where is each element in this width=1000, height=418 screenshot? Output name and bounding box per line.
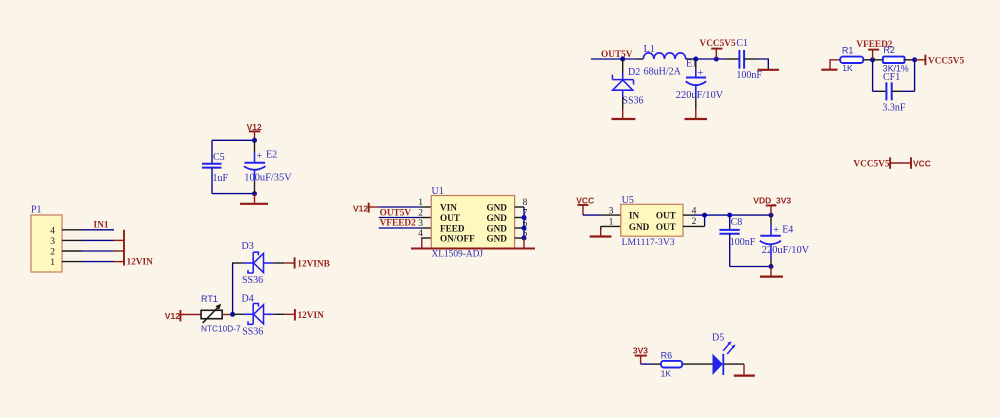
U1 pin 2 stub <box>421 217 431 219</box>
svg-text:IN1: IN1 <box>94 221 109 231</box>
ground stub <box>254 194 256 204</box>
power port V12 stub <box>254 131 256 140</box>
junction E4/VDD tap <box>769 213 774 218</box>
wire to pin1 <box>379 206 421 208</box>
wire bottom <box>212 193 255 195</box>
U5 pin 2 stub <box>683 225 705 227</box>
svg-text:1K: 1K <box>842 63 853 73</box>
wire R6 to D5 <box>682 363 713 365</box>
svg-text:XL1509-ADJ: XL1509-ADJ <box>432 249 484 259</box>
power port VCC bar <box>578 204 589 206</box>
U5 pin 3 stub <box>601 214 621 216</box>
junction R1/R2/VFEED2 <box>870 57 875 62</box>
ground bar left <box>821 69 837 71</box>
wire pin4 IN1 <box>82 229 114 231</box>
thermistor RT1 body <box>201 310 222 318</box>
svg-text:3: 3 <box>418 219 423 229</box>
svg-text:3: 3 <box>609 206 614 216</box>
diode D4 right pin <box>273 313 284 315</box>
pin 3 stub <box>62 239 82 241</box>
svg-text:VCC5V5: VCC5V5 <box>853 159 890 169</box>
capacitor E1 bottom pin <box>695 85 697 96</box>
svg-text:VCC5V5: VCC5V5 <box>700 39 737 49</box>
U1 pin 1 stub <box>421 206 431 208</box>
svg-text:220uF/10V: 220uF/10V <box>676 90 724 101</box>
U1 pin 3 stub <box>421 227 431 229</box>
red stub to gnd <box>770 267 772 277</box>
svg-text:2: 2 <box>50 248 55 258</box>
capacitor E2 arc <box>244 166 266 170</box>
pin 4 stub <box>62 229 82 231</box>
power port VDD_3V3 stub <box>770 206 772 216</box>
ground bar C1 <box>758 69 780 71</box>
capacitor E2 top pin <box>254 140 256 152</box>
svg-text:1: 1 <box>50 258 55 268</box>
svg-text:SS36: SS36 <box>242 327 263 338</box>
pin1 corner <box>600 226 602 230</box>
junction RT1/D4 <box>230 312 235 317</box>
svg-text:V12: V12 <box>353 204 368 214</box>
capacitor E2 bottom pin <box>254 170 256 181</box>
junction bottom <box>769 264 774 269</box>
svg-text:12VIN: 12VIN <box>127 258 154 268</box>
svg-text:NTC10D-7: NTC10D-7 <box>201 324 241 334</box>
ground rail under U1 <box>411 248 535 250</box>
junction C8 tap <box>727 213 732 218</box>
svg-text:1K: 1K <box>661 369 672 379</box>
U1 pin 5 stub <box>515 237 524 239</box>
ground bar D2 <box>612 118 636 120</box>
junction pin4/pin2 <box>702 213 707 218</box>
wire 3V3 to R6 <box>641 363 653 365</box>
svg-text:VCC5V5: VCC5V5 <box>928 57 965 67</box>
diode D2 <box>612 73 633 98</box>
svg-text:P1: P1 <box>31 205 42 216</box>
U5 pin 1 stub <box>601 225 621 227</box>
wire C8 upper <box>729 215 731 230</box>
red wire V12 <box>369 206 379 208</box>
svg-text:OUT: OUT <box>656 211 676 221</box>
wire CF1 bottom left <box>873 90 878 92</box>
svg-text:IN: IN <box>629 211 640 221</box>
svg-text:V12: V12 <box>247 122 262 132</box>
thermistor RT1 arrow <box>203 307 219 323</box>
svg-text:2: 2 <box>692 217 697 227</box>
svg-text:12VINB: 12VINB <box>297 259 330 269</box>
svg-text:L1: L1 <box>644 44 655 55</box>
diode D3 right pin <box>273 262 284 264</box>
capacitor E2 top plate <box>245 162 266 164</box>
svg-text:VIN: VIN <box>440 202 457 212</box>
resistor R6 body <box>661 361 682 368</box>
connector P1 body <box>31 215 62 272</box>
svg-text:D5: D5 <box>712 333 724 344</box>
R6 left pin <box>653 363 661 365</box>
wire to pin3 <box>379 227 421 229</box>
power port VFEED2 stub <box>872 50 874 60</box>
RT1 right wire <box>222 314 232 316</box>
svg-text:4: 4 <box>50 226 55 236</box>
svg-text:4: 4 <box>418 229 423 239</box>
capacitor C1 plates <box>738 50 740 69</box>
svg-text:LM1117-3V3: LM1117-3V3 <box>622 237 675 248</box>
svg-text:1uF: 1uF <box>213 173 229 184</box>
capacitor E4 top pin <box>770 215 772 225</box>
diode D2 bottom pin <box>622 97 624 109</box>
svg-text:GND: GND <box>629 222 650 232</box>
U5 pin 4 stub <box>683 214 692 216</box>
capacitor E4 bottom pin <box>770 244 772 259</box>
svg-text:C8: C8 <box>731 217 743 228</box>
capacitor C1 right pin <box>744 58 757 60</box>
ground bar <box>240 203 268 205</box>
svg-text:R2: R2 <box>883 45 895 55</box>
svg-text:E2: E2 <box>266 150 277 161</box>
IC U5 body <box>621 204 683 236</box>
svg-text:+: + <box>257 151 263 162</box>
inductor L1 <box>643 53 685 59</box>
svg-text:100nF: 100nF <box>736 70 762 81</box>
svg-text:1: 1 <box>609 218 614 228</box>
svg-text:E4: E4 <box>782 225 793 236</box>
pin 2 stub <box>62 250 82 252</box>
tie wire <box>890 162 911 164</box>
svg-text:8: 8 <box>523 198 528 208</box>
svg-text:12VIN: 12VIN <box>298 311 325 321</box>
wire CF1 left vertical <box>872 60 874 92</box>
R2 right pin <box>904 59 915 61</box>
red wire pin1 to gnd <box>600 230 602 237</box>
red wire to 12VINB port <box>284 262 294 264</box>
wire to pin2 <box>379 217 421 219</box>
power port VCC5V5 bar <box>711 48 722 50</box>
wire D5 to gnd <box>723 363 744 365</box>
diode D4 left pin <box>233 313 244 315</box>
power port VCC5V5 stub <box>715 49 717 59</box>
junction R2/CF1 <box>912 57 917 62</box>
junction pin6 <box>522 226 527 231</box>
svg-text:RT1: RT1 <box>201 294 218 304</box>
port bar 12VIN <box>294 309 296 321</box>
svg-text:FEED: FEED <box>440 223 465 233</box>
svg-text:SS36: SS36 <box>622 96 643 107</box>
wire pin2 <box>82 250 114 252</box>
capacitor E1 top pin <box>695 59 697 70</box>
red wire to 12VIN port <box>284 313 295 315</box>
wire C5 lower <box>211 168 213 194</box>
wire C5 upper <box>211 140 213 163</box>
svg-text:2: 2 <box>418 209 423 219</box>
junction top <box>252 138 257 143</box>
svg-text:VCC: VCC <box>913 158 931 168</box>
power port V12 bar <box>368 203 370 213</box>
LED D5 arrow 2 <box>727 347 733 354</box>
wire OUT5V start <box>591 58 637 60</box>
svg-text:U5: U5 <box>622 195 634 206</box>
LED D5 triangle <box>713 354 723 375</box>
U1 pin 4 stub <box>421 237 431 239</box>
wire VCC to U5 <box>583 214 601 216</box>
wire C8 lower <box>729 234 731 267</box>
diode D4 <box>243 304 273 325</box>
IC U1 body <box>431 196 514 249</box>
svg-text:R1: R1 <box>842 45 854 55</box>
svg-text:D3: D3 <box>242 241 254 252</box>
resistor R1 body <box>840 57 863 63</box>
svg-text:GND: GND <box>487 202 508 212</box>
capacitor E1 top plate <box>686 77 706 79</box>
12VIN bus bar <box>123 230 125 266</box>
capacitor C5 plates <box>202 163 222 165</box>
wire gnd pins vertical <box>523 207 525 238</box>
inductor L1 left pin <box>637 58 643 60</box>
power port VDD_3V3 bar <box>766 205 777 207</box>
capacitor C8 plates <box>719 229 739 231</box>
capacitor E4 arc <box>760 241 781 245</box>
port bar right <box>910 157 912 169</box>
port bar left <box>889 157 891 169</box>
wire bottom across <box>730 266 771 268</box>
svg-text:GND: GND <box>487 233 508 243</box>
svg-text:1: 1 <box>418 198 423 208</box>
junction pin7 <box>522 215 527 220</box>
red wire pin1 to bus <box>114 261 125 263</box>
svg-text:C5: C5 <box>213 152 225 163</box>
ground bar U5 <box>590 235 612 237</box>
power port V12 bar <box>179 310 181 322</box>
wire CF1 bottom right <box>901 90 915 92</box>
U1 pin 7 stub <box>515 217 524 219</box>
power port 3V3 bar <box>635 355 647 357</box>
wire L1 to C1 <box>692 58 726 60</box>
R2 left pin <box>873 59 883 61</box>
svg-text:3V3: 3V3 <box>633 346 648 356</box>
diode D2 top pin <box>622 59 624 73</box>
svg-text:V12: V12 <box>165 311 180 321</box>
svg-text:+: + <box>773 225 779 236</box>
power port VCC stub <box>582 205 584 215</box>
power port 3V3 stub <box>640 356 642 365</box>
svg-text:D2: D2 <box>628 67 640 78</box>
CF1 left pin <box>878 90 887 92</box>
ground stub <box>830 60 840 70</box>
svg-text:U1: U1 <box>432 186 444 197</box>
junction bottom <box>252 191 257 196</box>
wire top <box>212 139 255 141</box>
svg-text:SS36: SS36 <box>242 275 263 286</box>
svg-text:OUT: OUT <box>440 213 460 223</box>
red stub to gnd <box>622 109 624 119</box>
junction D2 tap <box>620 57 625 62</box>
junction VCC5V5 tap <box>714 57 719 62</box>
svg-text:OUT: OUT <box>656 222 676 232</box>
U1 pin 6 stub <box>515 227 524 229</box>
pin 1 stub <box>62 261 82 263</box>
svg-text:GND: GND <box>487 223 508 233</box>
wire CF1 right vertical <box>914 60 916 92</box>
R1 right pin <box>863 59 872 61</box>
svg-text:OUT5V: OUT5V <box>601 50 633 60</box>
port bar 12VINB <box>294 257 296 268</box>
LED D5 arrow 1 <box>723 343 729 350</box>
port bar VCC5V5 <box>924 55 926 65</box>
power port VFEED2 bar <box>868 49 879 51</box>
LED D5 cathode bar <box>722 354 724 375</box>
svg-text:220uF/10V: 220uF/10V <box>762 245 810 256</box>
red wire pin3 to bus <box>114 239 125 241</box>
svg-text:68uH/2A: 68uH/2A <box>644 66 682 77</box>
svg-text:C1: C1 <box>736 38 748 49</box>
wire to gnd <box>758 59 769 69</box>
wire V12 to RT1 <box>180 314 201 316</box>
wire U5 out <box>692 214 771 216</box>
capacitor CF1 plates <box>885 82 887 100</box>
svg-text:ON/OFF: ON/OFF <box>440 233 475 243</box>
junction pin5 <box>522 236 527 241</box>
red wire pin5 to rail <box>523 238 525 249</box>
svg-text:VDD_3V3: VDD_3V3 <box>753 195 791 205</box>
inductor L1 right pin <box>686 58 692 60</box>
capacitor E4 top plate <box>760 235 781 237</box>
svg-text:GND: GND <box>487 213 508 223</box>
resistor R2 body <box>883 57 905 63</box>
svg-text:100nF: 100nF <box>730 237 756 248</box>
wire pin1 <box>82 261 114 263</box>
svg-text:3.3nF: 3.3nF <box>882 102 906 113</box>
junction E1 tap <box>693 57 698 62</box>
power port V12 bar <box>249 130 260 132</box>
CF1 right pin <box>892 90 901 92</box>
svg-text:D4: D4 <box>242 294 254 305</box>
svg-text:100uF/35V: 100uF/35V <box>244 173 292 184</box>
red wire to VCC5V5 <box>915 59 926 61</box>
diode D3 <box>243 252 273 273</box>
svg-text:CF1: CF1 <box>883 72 900 83</box>
wire junction up to D3 <box>232 263 235 314</box>
diode D3 left pin <box>233 262 244 264</box>
wire pin2 up to pin4 <box>704 215 706 226</box>
ground bar E4 <box>760 276 783 278</box>
capacitor C1 left pin <box>726 58 739 60</box>
svg-text:3: 3 <box>50 237 55 247</box>
red wire pin2 to bus <box>114 250 125 252</box>
red wire pin4 to gnd rail <box>421 238 423 249</box>
capacitor E1 arc <box>686 81 707 85</box>
svg-text:R6: R6 <box>661 351 673 361</box>
wire pin3 <box>82 239 114 241</box>
U1 pin 8 stub <box>515 206 524 208</box>
ground bar E1 <box>685 118 708 120</box>
red stub to gnd <box>695 109 697 119</box>
svg-text:VFEED2: VFEED2 <box>380 219 417 229</box>
ground bar D5 <box>734 375 755 377</box>
red stub to gnd <box>743 364 745 376</box>
